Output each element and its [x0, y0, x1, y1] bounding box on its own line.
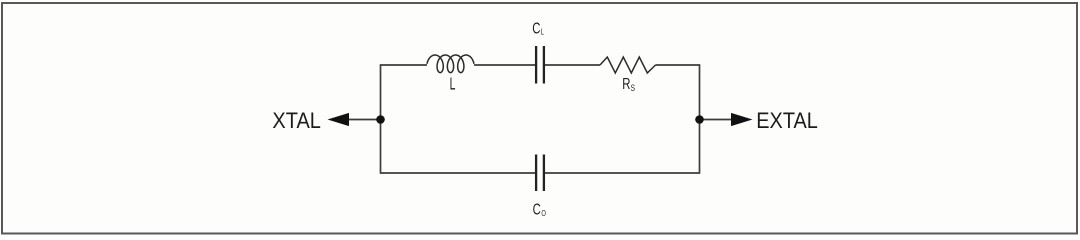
wire bottom-left segment	[381, 172, 536, 174]
svg-text:C: C	[532, 21, 540, 38]
arrow XTAL	[328, 113, 350, 126]
svg-text:XTAL: XTAL	[272, 108, 321, 133]
wire right vertical	[699, 64, 701, 174]
inductor L	[427, 55, 474, 73]
node left	[376, 115, 385, 124]
capacitor C_L	[536, 46, 544, 84]
wire bottom-right segment	[545, 172, 700, 174]
arrow EXTAL	[731, 113, 753, 126]
svg-text:S: S	[631, 83, 635, 94]
wire XTAL stub	[349, 119, 381, 121]
wire CL-to-RS	[545, 64, 600, 66]
wire left vertical	[380, 64, 382, 174]
svg-text:R: R	[622, 76, 630, 93]
node right	[695, 115, 704, 124]
svg-text:EXTAL: EXTAL	[756, 108, 818, 133]
svg-text:C: C	[533, 202, 541, 219]
resistor R_S	[600, 57, 656, 73]
capacitor C_O	[536, 155, 544, 192]
wire coil-to-CL	[474, 64, 535, 66]
svg-text:O: O	[541, 208, 546, 218]
svg-text:L: L	[450, 73, 456, 93]
wire top-left segment	[381, 64, 428, 66]
svg-text:L: L	[541, 27, 545, 36]
wire RS-to-right-corner	[656, 64, 700, 66]
wire EXTAL stub	[700, 119, 733, 121]
